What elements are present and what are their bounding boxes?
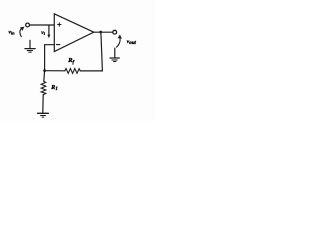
svg-text:vout: vout xyxy=(127,39,137,46)
svg-text:vin: vin xyxy=(9,29,16,35)
svg-text:Rf: Rf xyxy=(67,57,75,65)
svg-text:vi: vi xyxy=(41,30,45,36)
svg-text:R1: R1 xyxy=(50,85,57,92)
